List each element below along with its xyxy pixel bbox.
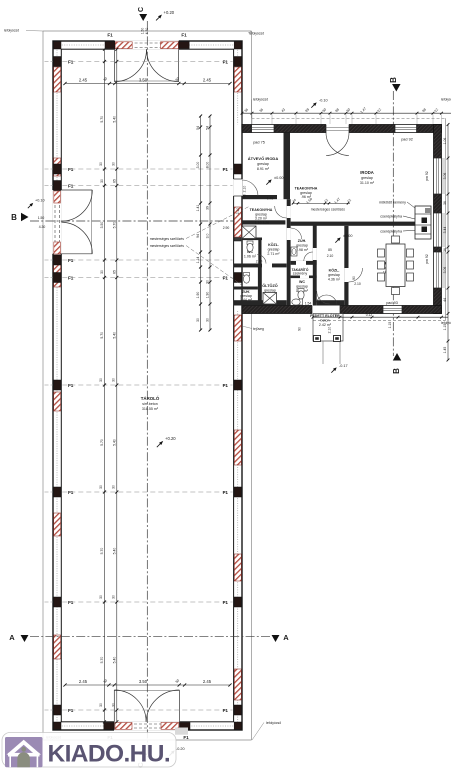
svg-text:F1: F1: [68, 383, 74, 388]
svg-text:54: 54: [205, 126, 209, 130]
svg-text:A: A: [283, 633, 289, 642]
svg-text:30: 30: [111, 703, 115, 707]
svg-text:+0.20: +0.20: [165, 436, 176, 441]
svg-text:lefolyócső: lefolyócső: [249, 32, 264, 36]
svg-text:pad 75: pad 75: [253, 141, 265, 145]
svg-text:4.30: 4.30: [39, 225, 46, 229]
svg-text:F1: F1: [68, 167, 74, 172]
svg-text:F1: F1: [181, 33, 187, 38]
svg-text:lefolyócső: lefolyócső: [4, 29, 19, 33]
svg-text:2.42 m²: 2.42 m²: [319, 323, 332, 327]
svg-text:5.70: 5.70: [100, 116, 104, 123]
svg-text:lefolyócső: lefolyócső: [441, 321, 451, 325]
svg-text:30: 30: [99, 378, 103, 382]
svg-text:3.06: 3.06: [443, 267, 447, 274]
svg-text:2.98 m²: 2.98 m²: [296, 248, 309, 252]
svg-text:90: 90: [298, 327, 302, 331]
svg-text:3.50: 3.50: [139, 78, 148, 83]
svg-text:ÖLTÖZŐ: ÖLTÖZŐ: [262, 283, 278, 288]
svg-text:90: 90: [319, 301, 323, 305]
svg-text:3.50: 3.50: [139, 679, 148, 684]
svg-text:1.06 m²: 1.06 m²: [244, 255, 257, 259]
svg-text:30: 30: [111, 485, 115, 489]
svg-text:mesterséges szellőzés: mesterséges szellőzés: [311, 208, 346, 212]
svg-text:F1: F1: [223, 600, 229, 605]
svg-text:30: 30: [196, 318, 200, 322]
svg-text:greslap: greslap: [361, 176, 373, 180]
svg-text:2.10: 2.10: [354, 282, 361, 286]
svg-text:2.10: 2.10: [236, 208, 240, 215]
svg-text:WC: WC: [299, 280, 305, 284]
svg-text:F1: F1: [68, 708, 74, 713]
svg-text:5.40: 5.40: [113, 116, 117, 123]
svg-text:94: 94: [196, 234, 200, 238]
svg-text:F1: F1: [68, 600, 74, 605]
svg-text:30: 30: [99, 595, 103, 599]
svg-text:44: 44: [443, 298, 447, 302]
svg-text:F1: F1: [183, 735, 189, 740]
svg-text:1.10 3.20: 1.10 3.20: [255, 221, 269, 225]
svg-text:KÖZL.: KÖZL.: [329, 268, 340, 273]
svg-text:1.41: 1.41: [196, 205, 200, 212]
svg-text:F1: F1: [68, 183, 74, 188]
svg-text:A: A: [9, 633, 15, 642]
svg-text:-0.10: -0.10: [319, 99, 328, 103]
svg-text:90: 90: [243, 194, 247, 198]
svg-text:5.70: 5.70: [113, 222, 117, 229]
svg-text:F1: F1: [107, 33, 113, 38]
svg-text:F1: F1: [223, 59, 229, 64]
svg-text:F1: F1: [223, 167, 229, 172]
svg-text:C: C: [138, 7, 145, 12]
svg-text:5.40: 5.40: [113, 657, 117, 664]
svg-text:1.50: 1.50: [140, 28, 144, 35]
svg-text:F1: F1: [68, 275, 74, 280]
svg-text:3.44: 3.44: [443, 227, 447, 234]
svg-text:greslap: greslap: [264, 289, 276, 293]
svg-text:1.90: 1.90: [205, 292, 209, 299]
svg-text:KIADO.HU.: KIADO.HU.: [48, 741, 171, 768]
svg-text:B: B: [389, 77, 398, 83]
svg-text:2.45: 2.45: [79, 679, 88, 684]
svg-text:65: 65: [113, 179, 117, 183]
svg-text:3.06: 3.06: [443, 173, 447, 180]
svg-text:F1: F1: [223, 383, 229, 388]
svg-text:85: 85: [328, 248, 332, 252]
svg-text:3.20 m²: 3.20 m²: [255, 217, 268, 221]
svg-text:pm 92: pm 92: [425, 254, 429, 264]
svg-text:2.90: 2.90: [223, 226, 230, 230]
svg-text:TEAKONYHA: TEAKONYHA: [250, 208, 273, 212]
svg-text:30: 30: [111, 162, 115, 166]
svg-text:sim.beton: sim.beton: [142, 402, 158, 406]
svg-text:2.45: 2.45: [203, 78, 212, 83]
svg-text:30: 30: [100, 179, 104, 183]
svg-text:F1: F1: [223, 490, 229, 495]
svg-text:4.30: 4.30: [145, 28, 149, 35]
svg-text:cserépkályha: cserépkályha: [380, 230, 403, 234]
svg-text:5.40: 5.40: [113, 332, 117, 339]
svg-text:36: 36: [443, 248, 447, 252]
svg-text:greslap: greslap: [268, 248, 280, 252]
svg-text:lefolyócső: lefolyócső: [441, 98, 451, 102]
svg-text:ZUH.: ZUH.: [298, 239, 306, 243]
svg-text:mesterséges szellőzés: mesterséges szellőzés: [150, 237, 185, 241]
svg-text:műkődő kémény: műkődő kémény: [379, 201, 406, 205]
svg-text:2.71 m²: 2.71 m²: [267, 252, 280, 256]
svg-text:30: 30: [111, 378, 115, 382]
svg-text:30: 30: [111, 595, 115, 599]
svg-text:5.70: 5.70: [100, 332, 104, 339]
svg-text:szekrény: szekrény: [293, 272, 308, 276]
svg-text:5.40: 5.40: [113, 548, 117, 555]
svg-text:0.12: 0.12: [366, 313, 373, 317]
svg-text:2.40: 2.40: [256, 260, 263, 264]
svg-text:cserépkályha: cserépkályha: [380, 215, 403, 219]
svg-text:54: 54: [196, 126, 200, 130]
svg-text:lefolyócső: lefolyócső: [253, 98, 268, 102]
svg-text:F1: F1: [68, 59, 74, 64]
svg-text:2.45: 2.45: [79, 78, 88, 83]
svg-text:1.15: 1.15: [388, 322, 392, 329]
svg-text:±0.00: ±0.00: [274, 176, 283, 180]
svg-text:30: 30: [99, 703, 103, 707]
svg-text:39: 39: [205, 206, 209, 210]
svg-text:TÁROLÓ: TÁROLÓ: [141, 396, 160, 401]
svg-text:greslap: greslap: [296, 244, 308, 248]
svg-text:30: 30: [205, 280, 209, 284]
svg-text:pm 92: pm 92: [425, 171, 429, 181]
svg-text:2.10: 2.10: [243, 186, 247, 193]
svg-text:1.48: 1.48: [267, 197, 274, 201]
svg-text:3.50: 3.50: [100, 222, 104, 229]
svg-text:318.55 m²: 318.55 m²: [142, 407, 159, 411]
svg-text:2.10: 2.10: [327, 254, 334, 258]
svg-text:B: B: [11, 213, 17, 222]
svg-text:2.45: 2.45: [203, 679, 212, 684]
svg-text:30: 30: [205, 318, 209, 322]
svg-text:IRODA: IRODA: [360, 170, 374, 175]
svg-text:8.91 m²: 8.91 m²: [257, 167, 270, 171]
svg-text:8.00: 8.00: [205, 162, 209, 169]
svg-text:±0.00: ±0.00: [343, 234, 352, 238]
svg-text:30: 30: [99, 485, 103, 489]
svg-text:TEAKONYHA: TEAKONYHA: [295, 187, 318, 191]
svg-text:mesterséges szellőzés: mesterséges szellőzés: [150, 244, 185, 248]
svg-text:5.40: 5.40: [113, 439, 117, 446]
svg-text:90: 90: [352, 276, 356, 280]
svg-text:pad 92: pad 92: [401, 138, 413, 142]
svg-text:1.14: 1.14: [196, 257, 200, 264]
svg-text:B: B: [392, 368, 401, 374]
svg-text:ÁTVEVŐ IRODA: ÁTVEVŐ IRODA: [248, 156, 279, 161]
svg-text:1.54: 1.54: [305, 302, 312, 306]
svg-text:1.90: 1.90: [196, 292, 200, 299]
svg-text:+0.10: +0.10: [35, 199, 45, 203]
svg-text:-0.20: -0.20: [176, 747, 185, 751]
svg-text:F1: F1: [68, 258, 74, 263]
svg-text:5.70: 5.70: [100, 439, 104, 446]
svg-text:tejüveg: tejüveg: [253, 327, 264, 331]
svg-text:1.06: 1.06: [443, 138, 447, 145]
svg-text:KÖZL.: KÖZL.: [268, 242, 279, 247]
svg-text:4.36 m²: 4.36 m²: [328, 278, 341, 282]
svg-text:lefolyócső: lefolyócső: [266, 721, 281, 725]
svg-text:greslap: greslap: [257, 162, 269, 166]
svg-text:3.0: 3.0: [205, 234, 209, 239]
svg-text:F1: F1: [68, 490, 74, 495]
svg-text:65: 65: [113, 270, 117, 274]
svg-text:greslap: greslap: [328, 273, 340, 277]
svg-text:30: 30: [100, 270, 104, 274]
svg-text:F1: F1: [223, 275, 229, 280]
svg-text:F1: F1: [223, 708, 229, 713]
svg-text:5.70: 5.70: [100, 548, 104, 555]
svg-text:2.10: 2.10: [328, 327, 332, 334]
svg-text:3.00: 3.00: [196, 162, 200, 169]
svg-text:pad 93: pad 93: [386, 301, 398, 305]
svg-text:-0.17: -0.17: [339, 364, 348, 368]
svg-text:30: 30: [99, 162, 103, 166]
svg-text:greslap: greslap: [296, 285, 308, 289]
svg-text:5.70: 5.70: [100, 657, 104, 664]
svg-text:1.44 m²: 1.44 m²: [240, 298, 253, 302]
svg-text:31.10 m²: 31.10 m²: [360, 181, 375, 185]
svg-text:1.50: 1.50: [38, 216, 45, 220]
svg-text:1.45: 1.45: [443, 347, 447, 354]
svg-text:36: 36: [443, 201, 447, 205]
svg-text:+0.20: +0.20: [164, 10, 175, 15]
